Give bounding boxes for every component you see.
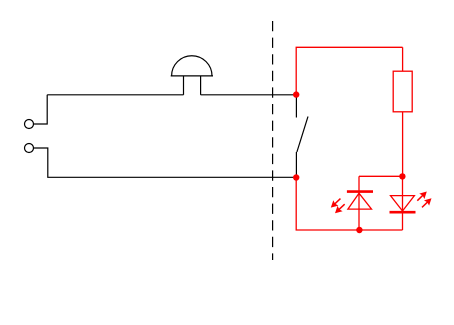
junction [356, 227, 362, 233]
wire [402, 47, 404, 71]
wire [296, 178, 402, 231]
wire [34, 95, 47, 124]
wire [47, 94, 183, 96]
wire [296, 47, 402, 94]
junction [293, 174, 299, 180]
LED D2 [390, 176, 416, 230]
light arrows (emitting, LED D1) [328, 196, 347, 216]
wire [34, 148, 296, 177]
terminal T2 [25, 144, 34, 153]
junction [399, 173, 405, 179]
wire [402, 112, 404, 177]
wire [201, 94, 297, 96]
boundary dashed line [272, 21, 274, 260]
junction [293, 91, 299, 97]
switch S1 [296, 95, 308, 178]
terminal T1 [25, 120, 34, 129]
light arrows (emitting, LED D2) [415, 189, 434, 210]
LED D1 [347, 176, 373, 230]
resistor R1 [393, 71, 412, 112]
wire [359, 175, 402, 177]
bell [171, 56, 213, 95]
